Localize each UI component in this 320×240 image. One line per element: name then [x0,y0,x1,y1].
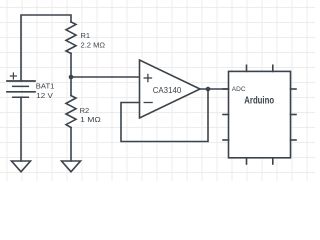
wire junction to op-amp + input [71,76,140,78]
op-amp U1 CA3140 triangle [140,60,201,118]
Arduino bottom pins [247,158,273,164]
junction node at op-amp output [206,87,211,92]
svg-text:CA3140: CA3140 [153,86,182,95]
svg-text:1 MΩ: 1 MΩ [80,115,101,124]
svg-text:Arduino: Arduino [244,96,274,107]
op-amp - input marker [144,102,152,104]
svg-text:12 V: 12 V [36,91,53,100]
svg-text:ADC: ADC [232,86,246,93]
junction node at R1/R2/op-amp input [69,75,74,80]
feedback wire output to - input [121,89,208,142]
wire R1 bottom to junction [70,53,72,77]
wire battery- to ground [20,97,22,161]
Arduino top pins [247,65,273,71]
wire battery+ to R1 top [21,15,71,81]
Arduino right pins [291,89,297,140]
resistor R2 [66,96,76,128]
ground (R2) [62,161,81,172]
ground (battery) [12,161,31,172]
Arduino left pins [223,89,229,140]
svg-text:2.2 MΩ: 2.2 MΩ [81,41,106,50]
battery BAT1 [7,81,35,97]
wire R2 bottom to ground [70,128,72,162]
resistor R1 [66,22,76,53]
op-amp + input marker [144,74,151,81]
wire junction to R2 top [70,77,72,96]
svg-text:R2: R2 [80,106,90,115]
battery plus polarity mark [10,73,16,79]
wire op-amp output to Arduino ADC [200,88,229,90]
Arduino module box [229,71,291,157]
svg-text:BAT1: BAT1 [36,82,55,91]
svg-text:R1: R1 [81,31,91,40]
